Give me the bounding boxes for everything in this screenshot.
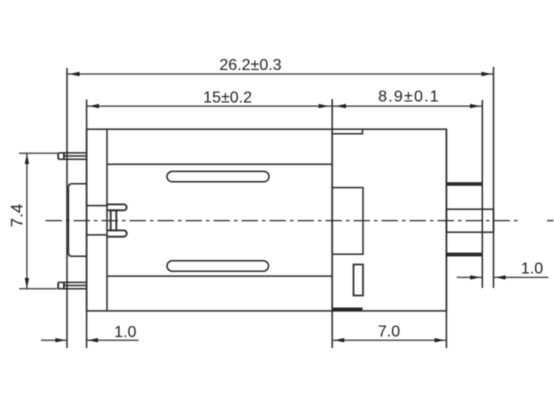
svg-text:15±0.2: 15±0.2	[203, 89, 252, 106]
arrow 1.0r left-pointing	[495, 275, 505, 279]
extension line can right face (x=332.2)	[331, 99, 333, 348]
dimension line 1.0 bottom-left	[41, 339, 139, 341]
extension line can left face (x=86.6)	[86, 100, 88, 349]
extension line gearbox right face (x=446.4)	[445, 129, 447, 348]
arrow 15 right	[319, 104, 329, 108]
gearbox small slot	[354, 265, 364, 296]
vent slot top	[167, 171, 269, 181]
center line	[46, 220, 554, 222]
arrow 26.2 right	[481, 72, 491, 76]
can crimp lip line (x=107)	[106, 129, 108, 311]
arrow 7.0 left	[334, 338, 344, 342]
terminal tab top	[58, 153, 86, 159]
arrow 7.4 down	[25, 278, 29, 288]
dimension line 26.2	[67, 73, 494, 75]
svg-text:7.4: 7.4	[7, 204, 26, 228]
extension line 7.4 top	[19, 152, 58, 154]
gearbox bottom notch bar	[332, 308, 362, 312]
arrow 15 left	[89, 104, 99, 108]
svg-text:26.2±0.3: 26.2±0.3	[219, 57, 281, 74]
can inner bottom line	[107, 275, 332, 277]
svg-text:8.9±0.1: 8.9±0.1	[378, 89, 440, 106]
arrow 26.2 left	[69, 72, 79, 76]
mounting tab top (thick)	[446, 182, 481, 186]
motor can body	[87, 129, 333, 311]
svg-text:1.0: 1.0	[521, 260, 543, 277]
arrow 1.0bl right-pointing	[55, 338, 65, 342]
extension line shaft tip (x=493.5)	[493, 67, 495, 288]
brush terminal fork vertical bar	[111, 210, 117, 230]
extension line 7.4 bottom	[19, 288, 58, 290]
mounting tab bottom (thick)	[446, 253, 481, 257]
svg-text:1.0: 1.0	[114, 324, 136, 341]
can inner top line	[107, 163, 332, 165]
extension line tab end (x=482.3)	[481, 100, 483, 288]
brush terminal fork bottom bar	[107, 230, 127, 236]
terminal tab bottom	[58, 282, 86, 288]
arrow 1.0bl left-pointing	[88, 338, 98, 342]
brush pocket lines	[87, 205, 108, 207]
gearbox recess rectangle	[332, 188, 363, 255]
vent slot bottom	[167, 261, 269, 271]
arrow 8.9 left	[336, 104, 346, 108]
dimension line 15 and 8.9	[87, 105, 483, 107]
dimension 7.4 vertical line	[19, 153, 58, 289]
gearbox block	[332, 129, 446, 311]
arrow 7.4 up	[25, 154, 29, 164]
gearbox top notch	[332, 129, 362, 134]
shaft	[446, 209, 493, 232]
arrow 8.9 right	[470, 104, 480, 108]
arrow 1.0r right-pointing	[470, 275, 480, 279]
svg-text:7.0: 7.0	[378, 323, 400, 340]
brush terminal fork top bar	[107, 204, 126, 210]
extension line left face / endbell face (x=67)	[66, 68, 68, 348]
arrow 7.0 right	[435, 338, 445, 342]
endbell step contour	[68, 184, 86, 256]
dimension line 1.0 right	[457, 276, 549, 278]
dimension line 7.0	[332, 339, 446, 341]
